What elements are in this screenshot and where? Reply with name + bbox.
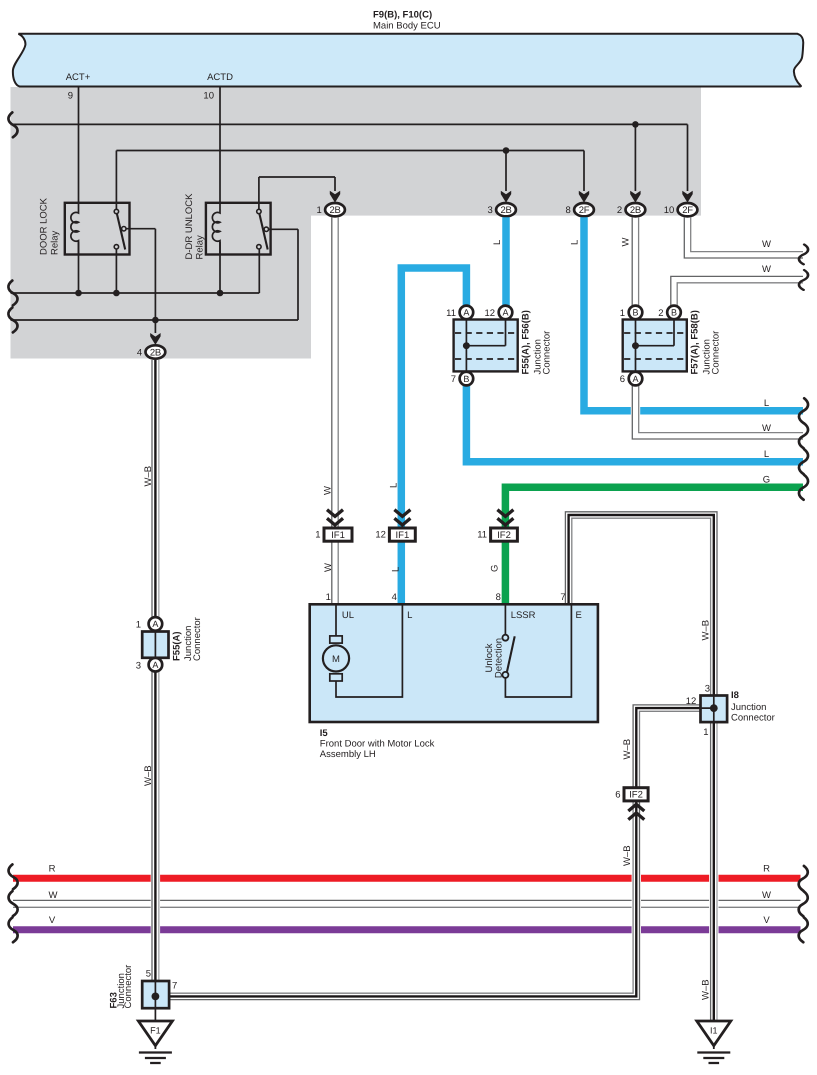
svg-text:G: G	[490, 565, 501, 572]
relay K1 contact common	[122, 227, 126, 231]
svg-text:IF2: IF2	[629, 790, 643, 801]
junction connector F55(A),F56(B) box	[454, 320, 518, 372]
connector stub arrow 1 2B	[330, 191, 340, 203]
relay K2 switch blade	[259, 214, 267, 250]
connector stub arrow 8 2F	[579, 191, 589, 203]
svg-text:3: 3	[488, 205, 493, 216]
node F55/F56 internal	[463, 342, 470, 349]
break squiggle right L1	[799, 398, 808, 423]
break squiggle left bus y=320	[8, 308, 17, 333]
node junction on y=150 bus	[503, 147, 510, 154]
pass-through arrows above 11 IF2	[497, 510, 513, 525]
wire drop to 2 2B	[634, 124, 636, 191]
wire W-B from I8 pin 12 left-down to 6 IF2 (double)	[636, 708, 701, 788]
svg-text:I5: I5	[320, 728, 329, 739]
svg-text:7: 7	[451, 374, 456, 385]
connector oval 3 2B	[496, 203, 516, 216]
svg-text:F1: F1	[150, 1026, 161, 1036]
svg-text:F57(A), F58(B): F57(A), F58(B)	[690, 310, 701, 374]
pin circle 1 B	[629, 306, 643, 320]
svg-text:11: 11	[477, 530, 487, 541]
svg-text:8: 8	[496, 592, 501, 603]
wire W-B from I5 pin E up-right-down to I8 pin 3 (double)	[569, 515, 714, 696]
svg-text:Junction: Junction	[731, 702, 766, 713]
break squiggle left V	[9, 917, 18, 942]
svg-text:F55(A): F55(A)	[172, 631, 183, 661]
relay K2 contact common	[264, 227, 268, 231]
svg-text:ACT+: ACT+	[66, 72, 91, 83]
wire W from junction F57 pin 6A down-right to right edge (double)	[636, 385, 804, 436]
svg-text:2: 2	[617, 205, 622, 216]
pass-through arrows below 6 IF2	[628, 804, 644, 819]
break squiggle left W	[9, 891, 18, 916]
svg-text:V: V	[49, 915, 56, 926]
pass-through arrows above 12 IF1	[394, 510, 410, 525]
svg-text:L: L	[764, 449, 769, 460]
connector oval 4 2B	[146, 345, 166, 358]
node relay1 contact on bus A	[113, 290, 120, 297]
connector oval 10 2F	[678, 203, 698, 216]
wire drop to 1 2B	[334, 177, 336, 191]
svg-text:Front Door with Motor Lock: Front Door with Motor Lock	[320, 738, 435, 749]
wire W from 10 2F down-right to right edge (double)	[688, 218, 804, 255]
wire relay1 top contact riser	[115, 151, 117, 210]
node F63	[152, 993, 160, 1001]
break squiggle right R	[799, 866, 808, 891]
svg-text:W: W	[49, 890, 58, 901]
svg-text:Connector: Connector	[542, 331, 553, 375]
pin circle 3 A	[149, 658, 163, 672]
wire drop to 8 2F	[583, 151, 585, 192]
svg-text:A: A	[152, 660, 158, 670]
svg-text:A: A	[502, 308, 508, 318]
wire W from 2 2B to junction F57 pin 1B (double)	[631, 218, 640, 306]
F55(A) internal wire	[154, 632, 156, 658]
break squiggle right W pair2	[799, 270, 808, 290]
relay K1 contact top	[114, 209, 118, 213]
connector oval 8 2F	[574, 203, 594, 216]
connector stub arrow 10 2F	[682, 191, 692, 203]
svg-text:IF1: IF1	[331, 530, 345, 541]
wire horizontal bus y=124	[11, 123, 688, 125]
svg-text:2B: 2B	[630, 205, 641, 216]
svg-text:ACTD: ACTD	[207, 72, 233, 83]
svg-text:6: 6	[615, 789, 620, 800]
break squiggle right V	[799, 917, 808, 942]
svg-text:M: M	[332, 654, 340, 665]
svg-text:W: W	[621, 238, 632, 247]
connector stub arrow 2 2B	[630, 191, 640, 203]
wire horizontal bus y=150	[116, 150, 584, 152]
svg-text:6: 6	[620, 374, 625, 385]
wire pin 9 vertical	[78, 87, 80, 203]
svg-text:2B: 2B	[500, 205, 511, 216]
wire W from 1 2B to 1 IF1 and I5 pin 1 (double)	[330, 218, 339, 605]
IF1 connector box pin 1	[324, 528, 352, 541]
svg-text:Assembly LH: Assembly LH	[320, 749, 376, 760]
svg-text:L: L	[407, 610, 412, 621]
svg-text:I8: I8	[731, 690, 739, 701]
pin circle 2 B	[667, 306, 681, 320]
junction connector F57(A),F58(B) box	[623, 320, 687, 372]
wire G from right edge to 11 IF2 and I5 pin 8 (green thick)	[505, 487, 803, 605]
break squiggle right L2	[799, 449, 808, 474]
svg-text:L: L	[764, 398, 769, 409]
relay K1 switch blade	[117, 214, 125, 250]
svg-text:W: W	[323, 563, 334, 572]
svg-text:7: 7	[172, 981, 177, 992]
motor M brush cap bottom	[330, 674, 342, 681]
wire horizontal bus y=177	[259, 176, 335, 178]
junction connector F55/F56 dashed rows	[455, 333, 517, 359]
svg-text:8: 8	[566, 205, 571, 216]
pin circle 11 A	[460, 306, 474, 320]
svg-text:Detection: Detection	[493, 638, 504, 678]
relay K2 D-DR UNLOCK box	[206, 203, 271, 255]
svg-text:B: B	[463, 374, 469, 384]
svg-text:A: A	[632, 374, 638, 384]
connector oval 1 2B	[325, 203, 345, 216]
svg-text:E: E	[576, 610, 582, 621]
wire horizontal bus y=320	[11, 319, 299, 321]
svg-text:W–B: W–B	[143, 765, 154, 786]
svg-text:Connector: Connector	[123, 965, 134, 1009]
svg-text:UL: UL	[342, 610, 354, 621]
svg-text:10: 10	[203, 91, 214, 102]
svg-text:3: 3	[705, 684, 710, 695]
svg-text:4: 4	[392, 592, 397, 603]
wire I5 internal motor to L	[336, 605, 402, 697]
svg-text:W–B: W–B	[622, 739, 633, 760]
svg-text:R: R	[49, 863, 56, 874]
node junction on y=124 bus	[632, 121, 639, 128]
relay K1 contact bottom	[114, 245, 118, 249]
svg-text:10: 10	[664, 205, 675, 216]
wire W from junction F57 pin 2B up-right to right edge (double)	[674, 280, 803, 306]
svg-text:2B: 2B	[329, 205, 340, 216]
break squiggle right G	[799, 475, 808, 500]
gray ECU internal region (left lower block)	[11, 87, 312, 359]
wire W-B from 4 2B through F55(A) to F63 pin 5 (double)	[151, 361, 160, 981]
junction connector F55(A) box	[142, 632, 168, 658]
connector oval 2 2B	[626, 203, 646, 216]
node relay2 coil on bus A	[217, 290, 224, 297]
svg-text:7: 7	[560, 592, 565, 603]
pin circle 6 A	[629, 372, 643, 386]
break squiggle right W pair1	[799, 244, 808, 264]
svg-text:W: W	[322, 486, 333, 495]
wire horizontal bus y=293	[11, 292, 260, 294]
break squiggle left bus y=293	[8, 281, 17, 306]
svg-text:2: 2	[658, 308, 663, 319]
svg-text:F55(A), F56(B): F55(A), F56(B)	[521, 310, 532, 374]
break squiggle right W3	[799, 423, 808, 448]
svg-text:12: 12	[485, 308, 496, 319]
node F57/F58 internal	[632, 342, 639, 349]
I8 junction connector box	[701, 696, 728, 723]
wire bus A riser to relay2 NC contact	[258, 249, 260, 293]
pass-through arrows above 1 IF1	[327, 510, 343, 525]
svg-text:2B: 2B	[150, 347, 161, 358]
relay K2 coil	[212, 203, 220, 255]
gray ECU internal region (top band)	[11, 87, 702, 216]
wire relay1 common contact to bus B	[126, 229, 156, 333]
svg-text:9: 9	[68, 91, 73, 102]
svg-text:W: W	[762, 423, 771, 434]
wire relay1 NC contact down	[115, 249, 117, 293]
IF1 connector box pin 12	[389, 528, 415, 541]
svg-text:W–B: W–B	[701, 620, 712, 641]
ground F1	[138, 1021, 172, 1063]
F63 internal wire	[154, 981, 156, 1008]
connector stub arrow 3 2B	[501, 191, 511, 203]
wire pin 10 vertical	[219, 87, 221, 203]
svg-text:IF2: IF2	[497, 530, 511, 541]
svg-text:L: L	[389, 483, 400, 488]
wire W-B from 6 IF2 down-left to F63 pin 7 (double)	[169, 800, 636, 996]
I5 Front Door with Motor Lock Assembly LH box	[310, 604, 598, 722]
svg-text:V: V	[763, 915, 770, 926]
connector stub arrow 4 2B	[150, 333, 160, 345]
svg-text:L: L	[391, 567, 402, 572]
motor M brush cap top	[330, 636, 342, 643]
wire W-B from I8 pin 1 down to I1 ground (double)	[709, 722, 718, 1021]
svg-text:W: W	[762, 239, 771, 250]
svg-text:G: G	[763, 475, 770, 486]
svg-text:B: B	[671, 308, 677, 318]
unlock detection switch blade	[507, 636, 515, 671]
IF2 connector box pin 11	[491, 528, 518, 541]
svg-text:W–B: W–B	[622, 845, 633, 866]
svg-text:W: W	[762, 264, 771, 275]
svg-text:IF1: IF1	[396, 530, 410, 541]
relay K1 coil	[71, 203, 79, 255]
svg-text:F9(B), F10(C): F9(B), F10(C)	[373, 10, 432, 21]
F63 junction connector box	[142, 981, 169, 1008]
svg-text:12: 12	[686, 696, 697, 707]
svg-text:2F: 2F	[682, 205, 693, 216]
svg-text:DOOR LOCK: DOOR LOCK	[39, 197, 50, 255]
svg-text:1: 1	[326, 592, 331, 603]
svg-text:L: L	[492, 240, 503, 245]
relay K1 DOOR LOCK box	[65, 203, 130, 255]
svg-text:Main Body ECU: Main Body ECU	[373, 21, 441, 32]
unlock detection switch contact bottom	[502, 672, 508, 678]
wire bus B riser to relay2 common	[268, 229, 298, 320]
motor M body	[323, 645, 349, 671]
W power line (double)	[13, 899, 801, 901]
wire I5 internal UL to motor	[335, 605, 337, 636]
svg-text:Connector: Connector	[192, 617, 203, 661]
svg-text:Connector: Connector	[731, 712, 775, 723]
wire relay2 top contact riser	[258, 177, 260, 209]
R power line	[13, 875, 801, 882]
svg-text:L: L	[569, 240, 580, 245]
unlock detection switch contact top	[502, 635, 508, 641]
svg-text:Relay: Relay	[195, 235, 206, 260]
svg-text:12: 12	[375, 530, 386, 541]
svg-text:1: 1	[620, 308, 625, 319]
wire F63 to ground F1	[154, 1008, 156, 1021]
svg-text:2F: 2F	[579, 205, 590, 216]
junction connector F57/F58 internal wiring	[636, 320, 675, 372]
wire drop to 10 2F	[687, 124, 689, 191]
svg-text:W–B: W–B	[701, 979, 712, 1000]
pin circle 7 B	[460, 372, 474, 386]
pin circle 12 A	[499, 306, 513, 320]
svg-text:A: A	[463, 308, 469, 318]
node I8	[710, 704, 718, 712]
svg-text:I1: I1	[710, 1026, 718, 1036]
svg-text:Relay: Relay	[50, 230, 61, 255]
svg-text:4: 4	[137, 348, 142, 359]
pin circle 1 A	[149, 617, 163, 631]
svg-text:LSSR: LSSR	[511, 610, 536, 621]
svg-text:1: 1	[315, 530, 320, 541]
svg-text:5: 5	[146, 969, 151, 980]
svg-text:W–B: W–B	[143, 466, 154, 487]
svg-text:D-DR UNLOCK: D-DR UNLOCK	[184, 193, 195, 260]
wire drop to 3 2B	[505, 151, 507, 192]
break squiggle left R	[9, 864, 18, 889]
node junction on y=320 bus	[152, 317, 159, 324]
I8 internal wires	[701, 696, 714, 723]
svg-text:Connector: Connector	[711, 331, 722, 375]
wire I5 internal LSSR to switch	[504, 605, 506, 635]
svg-text:B: B	[632, 308, 638, 318]
wire I5 internal switch to E	[505, 605, 571, 697]
wire L from junction pin 7B to right edge (blue thick)	[466, 385, 803, 461]
break squiggle right W	[799, 891, 808, 916]
svg-text:1: 1	[703, 727, 708, 738]
relay K2 contact top	[257, 209, 261, 213]
svg-text:A: A	[152, 619, 158, 629]
relay K2 contact bottom	[257, 245, 261, 249]
wire L from junction pin 11A up-left-down to 12 IF1 and I5 pin 4 (blue thick)	[401, 268, 466, 605]
svg-text:11: 11	[446, 308, 456, 319]
V power line	[13, 926, 801, 933]
junction connector F57/F58 dashed rows	[624, 333, 686, 359]
junction connector F55/F56 internal wiring	[466, 320, 505, 372]
break squiggle left bus y=124	[8, 112, 17, 137]
svg-text:1: 1	[317, 205, 322, 216]
wire L from 3 2B to junction pin 12A (blue thick)	[502, 217, 510, 306]
svg-text:R: R	[763, 863, 770, 874]
svg-text:3: 3	[136, 660, 141, 671]
ground I1	[697, 1021, 731, 1063]
node relay1 coil on bus A	[75, 290, 82, 297]
Main Body ECU band	[13, 34, 803, 87]
wire relay1 coil down	[78, 242, 80, 293]
svg-text:W: W	[762, 890, 771, 901]
svg-text:1: 1	[136, 620, 141, 631]
wire relay2 coil down	[219, 242, 221, 293]
IF2 connector box pin 6	[624, 788, 648, 801]
wire L from 8 2F down and right (blue thick)	[584, 217, 803, 410]
